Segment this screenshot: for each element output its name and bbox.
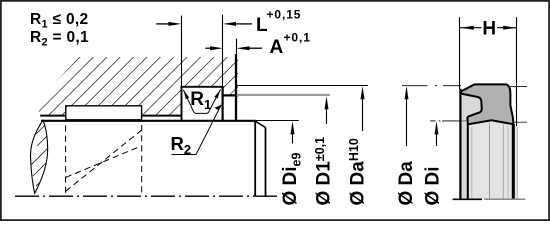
Da H10 arrow xyxy=(361,86,365,131)
Di arrow xyxy=(435,121,439,146)
dimension L arrow right xyxy=(223,22,252,26)
Di (seal ID) dash-dot extension xyxy=(430,120,460,122)
dashed diagonal 1 xyxy=(66,130,142,191)
dimension L extension line right / A left xyxy=(222,15,224,87)
dashed diagonal 2 xyxy=(66,146,142,178)
svg-text:A: A xyxy=(270,37,284,58)
body shading line 3 xyxy=(502,125,504,199)
body shading line 2 xyxy=(489,123,491,199)
groove root xyxy=(180,86,223,88)
H dimension extension right xyxy=(516,17,518,126)
R1 arrowhead right xyxy=(214,89,220,98)
seal body (light, elevation of bore) xyxy=(468,120,518,198)
seal bottom line dark part xyxy=(453,198,482,200)
H dimension extension left xyxy=(459,17,461,89)
Di ref line right of seal xyxy=(514,121,527,123)
svg-text:H: H xyxy=(482,19,496,40)
housing hatch (section lines) xyxy=(0,57,322,124)
H arrow left xyxy=(461,26,474,30)
Da ref line right of seal xyxy=(507,86,527,88)
dimension A arrow right xyxy=(237,46,263,50)
Di e9 arrow xyxy=(291,121,295,143)
R2 leader underline xyxy=(172,105,222,155)
seal lip inner vertical xyxy=(467,124,469,199)
dimension A arrow left xyxy=(205,46,223,50)
rod end chamfer edge xyxy=(254,121,256,196)
body shading line 1 xyxy=(471,127,473,199)
rod end face xyxy=(265,128,267,197)
Di e9 extension line xyxy=(256,120,299,122)
housing front face xyxy=(235,54,237,121)
R2 leader arrowhead xyxy=(214,105,221,111)
H label background xyxy=(482,18,498,36)
rod end chamfer xyxy=(255,121,265,127)
D1 arrow xyxy=(325,96,329,124)
R1 arrowhead left xyxy=(183,90,189,99)
seal body right edge xyxy=(512,124,515,199)
D1 line (gray) xyxy=(237,94,330,96)
svg-text:Ø Da: Ø Da xyxy=(396,161,417,206)
body right sliver edge xyxy=(517,127,519,199)
seal bottom line gray part xyxy=(484,198,525,200)
seal head cross-section xyxy=(461,84,514,124)
Da arrow xyxy=(405,86,409,146)
svg-text:R2 = 0,1: R2 = 0,1 xyxy=(30,29,89,49)
H arrow right xyxy=(503,26,516,30)
rod surface line xyxy=(41,120,256,122)
body shading line 4 xyxy=(507,126,509,199)
housing bore line right of bearing box xyxy=(142,115,182,117)
svg-text:Ø Di: Ø Di xyxy=(423,166,444,205)
svg-text:R1 ≤ 0,2: R1 ≤ 0,2 xyxy=(30,11,88,31)
groove left wall xyxy=(181,87,183,122)
lens hatch xyxy=(24,57,191,206)
svg-text:+0,15: +0,15 xyxy=(267,7,302,21)
dashed hidden edge under box right xyxy=(141,125,143,194)
H dimension line xyxy=(460,27,517,29)
Da (seal OD) dash-dot extension xyxy=(402,85,461,87)
seal left strip (light) xyxy=(460,94,481,199)
dimension L arrow left xyxy=(156,22,181,26)
bearing box xyxy=(66,106,142,120)
svg-text:+0,1: +0,1 xyxy=(284,30,311,44)
groove right wall xyxy=(222,87,224,122)
Da H10 extension line xyxy=(237,85,368,87)
dimension A extension line right xyxy=(236,39,238,56)
seal outer left edge xyxy=(459,89,461,199)
rod break lens xyxy=(31,120,48,193)
centerline (rod axis) xyxy=(15,195,278,197)
dashed hidden edge under box left xyxy=(65,125,67,194)
housing lip bore D1 edge xyxy=(222,94,238,96)
seal lip outline in groove (trapezoid) xyxy=(183,89,220,113)
ref line crossing strip xyxy=(460,120,468,122)
dimension L extension line left xyxy=(181,16,183,87)
housing bore line left of bearing box xyxy=(40,115,66,117)
